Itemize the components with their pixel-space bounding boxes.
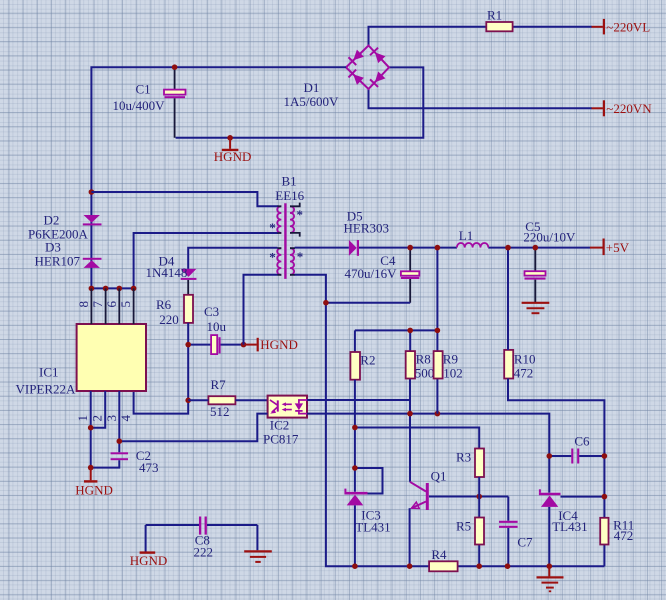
shunt regulator IC3 TL431 [344, 489, 390, 535]
svg-text:PC817: PC817 [263, 431, 299, 446]
wire aux winding top to D4 anode [188, 248, 277, 269]
junction C6 right [602, 453, 608, 459]
terminal +5V [590, 239, 630, 256]
svg-text:Q1: Q1 [431, 469, 447, 484]
svg-text:472: 472 [514, 366, 534, 381]
svg-text:R8: R8 [416, 352, 431, 367]
resistor R5 [456, 518, 484, 545]
wire R6 bottom down through C3 row and R7 row to IC1 pin 4 [134, 323, 189, 414]
terminal ~220VN [592, 100, 653, 116]
junction R7 node [185, 398, 191, 404]
svg-text:C1: C1 [136, 81, 151, 96]
wire IC3 anode to bottom rail [354, 505, 356, 566]
junction R5 bottom rail [476, 563, 482, 569]
capacitor C8 222 [146, 517, 258, 560]
junction C4 ground tap [323, 300, 329, 306]
junction HV rail / primary top wire [89, 189, 95, 195]
wire HV+ rail: bridge left corner to C1 tap and down left side [91, 67, 346, 288]
junction pins 8-5 row [89, 286, 95, 292]
svg-text:EE16: EE16 [275, 188, 304, 203]
wire secondary winding bottom down the long ground vertical to bottom rail [295, 275, 605, 566]
svg-text:B1: B1 [282, 174, 297, 189]
svg-text:10u/400V: 10u/400V [113, 98, 166, 113]
wire R10 bottom to right-side vertical to R11 [508, 379, 604, 567]
wire primary top: rail to transformer upper-left coil [91, 192, 278, 206]
wire R2 bottom / IC3 cathode vertical [354, 380, 356, 492]
capacitor C7 [499, 522, 533, 550]
wire opto LED cathode return to pin3 net [119, 414, 267, 442]
svg-text:470u/16V: 470u/16V [345, 266, 398, 281]
resistor R1 [486, 8, 512, 32]
svg-text:R2: R2 [360, 353, 375, 368]
svg-text:*: * [269, 220, 276, 235]
ground earth at C8 right [244, 551, 272, 562]
svg-text:8: 8 [76, 301, 91, 308]
wire IC3 ref hook [355, 468, 383, 494]
junction pin1/pin2 [88, 425, 94, 431]
svg-text:TL431: TL431 [552, 519, 587, 534]
svg-text:500: 500 [415, 366, 435, 381]
wire pin1 down to HGND node [90, 391, 92, 468]
svg-text:HER303: HER303 [344, 220, 390, 235]
svg-text:C3: C3 [204, 304, 219, 319]
junction +5V / R9 riser [435, 245, 441, 251]
capacitor C1 10u/400V [113, 67, 186, 138]
capacitor C2 473 [91, 448, 159, 475]
resistor R10 472 [504, 350, 535, 381]
junction R6 / C3 [185, 342, 191, 348]
diode D2 P6KE200A [28, 213, 102, 242]
resistor R11 472 [600, 518, 634, 545]
svg-text:*: * [297, 249, 304, 264]
IC U1 VIPER22A body [16, 288, 147, 396]
svg-text:D2: D2 [44, 213, 60, 228]
wire Q1 emitter to bottom rail [409, 508, 411, 566]
svg-text:220u/10V: 220u/10V [523, 229, 576, 244]
wire feedback row to R3 [355, 428, 479, 449]
wire C4 bottom to main secondary ground vertical [326, 302, 410, 304]
svg-text:+5V: +5V [606, 240, 630, 255]
svg-text:*: * [297, 207, 304, 222]
svg-text:C6: C6 [574, 433, 590, 448]
svg-text:VIPER22A: VIPER22A [16, 381, 77, 396]
wire opto transistor collector to R8 chain [307, 399, 410, 401]
wire bridge bottom corner to terminal ~220VN [369, 89, 592, 109]
svg-text:4: 4 [118, 415, 133, 422]
svg-text:222: 222 [194, 544, 214, 559]
wire C3 row [188, 344, 243, 346]
capacitor C3 10u [204, 304, 227, 354]
capacitor C6 [572, 433, 590, 463]
junction C7 bottom rail [505, 563, 511, 569]
svg-text:~220VL: ~220VL [606, 19, 650, 34]
svg-text:102: 102 [443, 366, 463, 381]
optocoupler IC2 PC817 [263, 396, 307, 447]
shunt regulator IC4 TL431 [539, 489, 588, 534]
svg-text:HGND: HGND [130, 553, 168, 568]
wire AC-L top run to R1 and terminal [369, 27, 592, 46]
junction Q1 emitter / bottom rail [407, 563, 413, 569]
wire pin2 elbow to pin1 [91, 391, 106, 428]
resistor R6 220 [156, 295, 193, 327]
resistor R7 512 [188, 377, 267, 419]
svg-text:*: * [269, 250, 276, 265]
wire opto emitter row to IC4 cathode vertical [307, 414, 549, 493]
svg-text:IC2: IC2 [270, 417, 290, 432]
junction base / R3 / R5 [476, 494, 482, 500]
junction IC4 ref / R11 [602, 494, 608, 500]
junction C5 top [533, 245, 539, 251]
wire pin3 down to C2 [118, 391, 120, 452]
svg-text:R6: R6 [156, 297, 172, 312]
svg-text:R5: R5 [456, 519, 471, 534]
svg-text:R3: R3 [456, 450, 471, 465]
wire C6 row [549, 455, 604, 457]
diode D3 HER107 [35, 240, 102, 269]
capacitor C4 470u/16V [345, 248, 420, 303]
transistor Q1 [410, 469, 447, 510]
wire top resistor row R2-R8-R9 [355, 330, 438, 352]
svg-text:HGND: HGND [75, 482, 113, 497]
wire R9 riser from +5V rail [436, 248, 438, 414]
svg-text:HGND: HGND [214, 149, 252, 164]
svg-text:472: 472 [614, 528, 634, 543]
junction IC4 anode / bottom rail [547, 563, 553, 569]
transformer B1 EE16 [269, 174, 304, 279]
junction C1 top [172, 64, 178, 70]
diode D4 1N4148 [146, 254, 197, 295]
junction C6 left [547, 453, 553, 459]
wire Q1 base row to C7 [429, 497, 508, 567]
svg-text:D1: D1 [304, 80, 320, 95]
svg-text:512: 512 [210, 404, 230, 419]
wire R8 bottom chain down to Q1 collector [409, 379, 411, 482]
junction C2 / HGND [88, 465, 94, 471]
junction IC3 anode / bottom rail [352, 563, 358, 569]
resistor R2 [350, 352, 375, 380]
svg-text:1N4148: 1N4148 [146, 265, 188, 280]
junction R2 bottom / IC3 [352, 425, 358, 431]
resistor R4 [429, 547, 458, 572]
svg-text:R10: R10 [514, 352, 536, 367]
resistor R3 [456, 449, 484, 478]
svg-text:R4: R4 [431, 547, 447, 562]
svg-text:TL431: TL431 [355, 520, 390, 535]
svg-text:1: 1 [75, 415, 90, 422]
resistor R8 500 [406, 351, 435, 381]
ground HGND on DC- rail [214, 135, 252, 164]
ground HGND at IC1 pin1 [75, 468, 113, 498]
capacitor C5 220u/10V [523, 219, 576, 303]
diode D5 HER303 [344, 208, 390, 255]
svg-text:R7: R7 [211, 377, 227, 392]
svg-text:473: 473 [139, 460, 159, 475]
svg-text:D3: D3 [45, 240, 61, 255]
svg-text:L1: L1 [459, 228, 473, 243]
wire IC4 ref hook to R11 node [561, 496, 605, 498]
inductor L1 [457, 228, 488, 248]
ground earth below IC4 [537, 566, 564, 591]
svg-text:HGND: HGND [260, 337, 298, 352]
svg-text:6: 6 [104, 301, 119, 308]
junction R9 top [435, 328, 441, 334]
wire bridge right corner to DC- rail [176, 67, 424, 137]
svg-text:HER107: HER107 [35, 253, 81, 268]
junction R8 top [407, 328, 413, 334]
terminal ~220VL [592, 19, 651, 35]
svg-text:2: 2 [90, 415, 105, 422]
ground HGND at C3 [241, 337, 298, 352]
svg-text:10u: 10u [207, 319, 227, 334]
ground earth below C5 [522, 303, 550, 313]
wire R3 bottom to node, R5 [478, 477, 480, 566]
svg-text:IC1: IC1 [39, 365, 59, 380]
svg-text:R9: R9 [443, 352, 458, 367]
svg-text:5: 5 [118, 301, 133, 308]
junction R9 bottom [435, 411, 441, 417]
svg-text:220: 220 [159, 312, 179, 327]
junction +5V / R10 riser [505, 245, 511, 251]
junction opto emitter / R8 chain [407, 411, 413, 417]
junction IC3 ref [352, 465, 358, 471]
bridge rectifier D1 1A5/600V [284, 46, 390, 110]
svg-text:~220VN: ~220VN [606, 101, 652, 116]
wire R10 riser from +5V rail [507, 248, 509, 350]
junction pin3 / opto return [117, 438, 123, 444]
svg-text:R1: R1 [487, 8, 502, 23]
svg-text:1A5/600V: 1A5/600V [284, 94, 340, 109]
ground HGND at C8 [130, 553, 168, 568]
wire secondary output to D5 and +5V rail [295, 247, 591, 249]
junction C4 top [407, 245, 413, 251]
resistor R9 102 [434, 351, 463, 381]
wire IC4 anode to bottom rail [548, 507, 550, 566]
wire pin5 net: pins row up to transformer upper-left coil bottom [91, 233, 278, 288]
wire secondary bottom to HGND node [244, 275, 278, 345]
svg-text:C7: C7 [517, 535, 533, 550]
